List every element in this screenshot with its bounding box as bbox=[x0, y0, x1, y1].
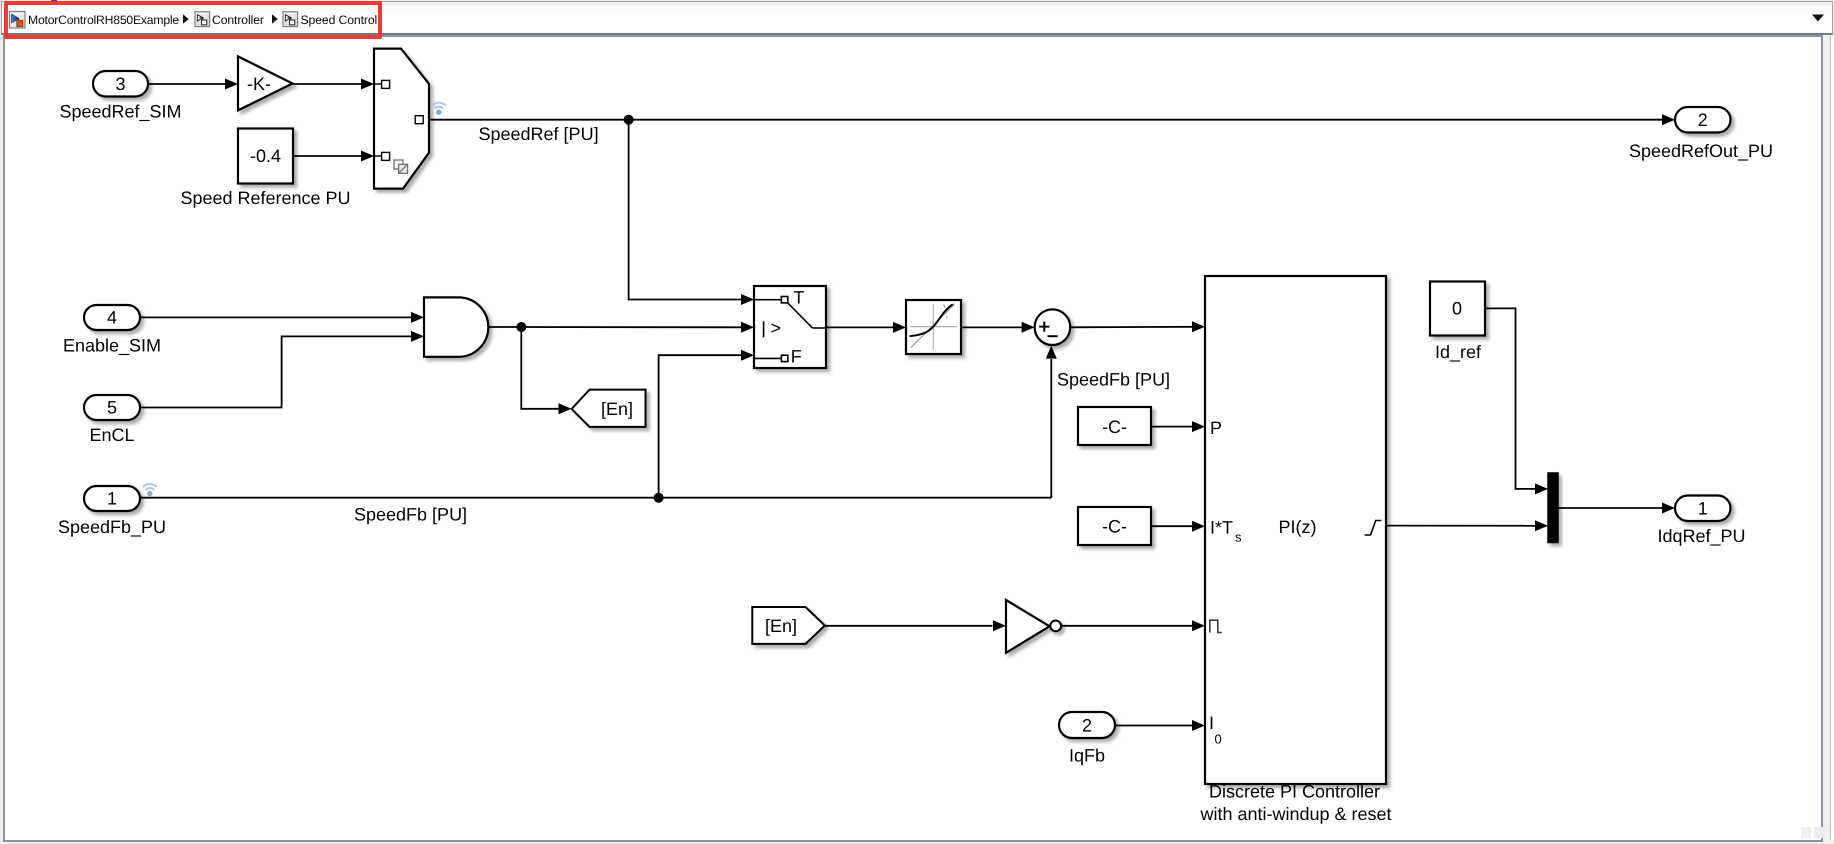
toolbar dropdown arrow bbox=[1812, 15, 1824, 22]
arrowhead into PI I0 input bbox=[1192, 720, 1205, 731]
svg-text:0: 0 bbox=[1452, 299, 1462, 319]
variant badge (overlapping squares) bbox=[394, 160, 408, 173]
outport 1 bbox=[1675, 496, 1731, 522]
svg-text:-C-: -C- bbox=[1102, 417, 1127, 437]
NOT gate bubble bbox=[1050, 621, 1061, 632]
svg-text:SpeedFb [PU]: SpeedFb [PU] bbox=[354, 505, 467, 525]
right scrollbar strip bbox=[1823, 35, 1831, 840]
constant -0.4 (Speed Reference PU) bbox=[238, 129, 293, 184]
switch internals bbox=[755, 297, 825, 362]
wire Constant -C- I*Ts to PI controller bbox=[1151, 525, 1192, 527]
wire branch SpeedFb up to Switch F input bbox=[659, 355, 741, 498]
svg-text:[En]: [En] bbox=[601, 399, 633, 419]
svg-text:SpeedFb [PU]: SpeedFb [PU] bbox=[1057, 370, 1170, 390]
variant source port squares bbox=[374, 80, 423, 160]
arrowhead into PI reset input bbox=[1192, 620, 1205, 631]
svg-text:>: > bbox=[771, 318, 782, 338]
svg-text:I: I bbox=[1209, 713, 1214, 733]
wire Inport2 IqFb to PI I0 input bbox=[1115, 725, 1192, 727]
NOT gate bbox=[1006, 600, 1050, 653]
saturation block icon internals bbox=[910, 304, 958, 351]
PI block reset pulse glyph bbox=[1210, 620, 1222, 632]
sum signs bbox=[1039, 322, 1058, 337]
junction node on SpeedRef line bbox=[624, 115, 634, 125]
breadcrumb subsystem icon 2 bbox=[195, 12, 210, 27]
wire SpeedRef [PU] : VariantSource out to Outport2 bbox=[423, 119, 429, 121]
svg-text:I*T: I*T bbox=[1210, 518, 1233, 538]
wire SpeedFb [PU] : Inport1 to sum bbox=[140, 497, 1051, 499]
scrollbar white edge bbox=[1831, 35, 1834, 840]
svg-text:1: 1 bbox=[1698, 499, 1708, 519]
wire Gain to VariantSource in1 bbox=[293, 83, 363, 85]
wire Saturation out to Sum bbox=[961, 326, 1022, 328]
arrowhead into Gain bbox=[225, 79, 238, 90]
scrollbar inner line bbox=[1830, 35, 1832, 840]
breadcrumb toolbar background bbox=[1, 1, 1833, 35]
svg-text:F: F bbox=[791, 347, 802, 367]
breadcrumb model icon 1 bbox=[10, 12, 26, 29]
svg-text:5: 5 bbox=[107, 398, 117, 418]
inport 5 bbox=[84, 395, 140, 420]
svg-text:SpeedFb_PU: SpeedFb_PU bbox=[58, 517, 166, 537]
wire Switch out to Saturation bbox=[826, 326, 893, 328]
arrowhead into Switch F bbox=[741, 350, 754, 361]
wire PI output to Mux bbox=[1386, 525, 1535, 527]
svg-text:P: P bbox=[1210, 418, 1222, 438]
wire AND output to Switch control bbox=[488, 326, 741, 328]
breadcrumb subsystem icon 3 bbox=[283, 12, 298, 27]
svg-text:with anti-windup & reset: with anti-windup & reset bbox=[1199, 804, 1391, 824]
svg-text:Id_ref: Id_ref bbox=[1435, 342, 1482, 362]
arrowhead into Switch control bbox=[741, 322, 754, 333]
red annotation rectangle around breadcrumb bbox=[4, 1, 382, 39]
arrowhead into AND in2 bbox=[411, 331, 424, 342]
inport 1 bbox=[84, 486, 140, 511]
arrowhead into Saturation bbox=[893, 322, 906, 333]
svg-text:SpeedRef [PU]: SpeedRef [PU] bbox=[479, 124, 599, 144]
wire Inport5 to AND in2 bbox=[140, 336, 411, 407]
AND logical operator block bbox=[424, 297, 488, 356]
breadcrumb separator 2 bbox=[272, 14, 278, 23]
constant -C- (I*Ts gain) bbox=[1078, 507, 1151, 545]
svg-text:0: 0 bbox=[1215, 732, 1222, 747]
svg-text:[En]: [En] bbox=[765, 616, 797, 636]
arrowhead into AND in1 bbox=[411, 312, 424, 323]
wire NOT gate to PI reset input bbox=[1061, 625, 1192, 627]
arrowhead into Outport2 bbox=[1662, 114, 1675, 125]
svg-text:IqFb: IqFb bbox=[1069, 746, 1105, 766]
arrowhead into VariantSource in2 bbox=[361, 151, 374, 162]
arrowhead into Sum bottom bbox=[1046, 346, 1057, 359]
svg-text:3: 3 bbox=[115, 74, 125, 94]
faint watermark marks bottom right bbox=[1801, 827, 1811, 838]
gain -K- bbox=[238, 56, 293, 110]
arrowhead into PI error input bbox=[1192, 321, 1205, 332]
wire branch down to Switch T input bbox=[629, 120, 741, 300]
breadcrumb separator 1 bbox=[183, 14, 189, 23]
saturation block bbox=[906, 300, 961, 354]
top window accent tab bbox=[51, 0, 57, 2]
inport 3 bbox=[93, 71, 148, 97]
svg-text:PI(z): PI(z) bbox=[1279, 517, 1317, 537]
svg-text:Speed Reference PU: Speed Reference PU bbox=[180, 188, 350, 208]
junction node on AND output bbox=[516, 322, 526, 332]
svg-text:-0.4: -0.4 bbox=[250, 146, 281, 166]
wire Mux to Outport1 bbox=[1558, 507, 1662, 509]
constant -C- (P gain) bbox=[1078, 407, 1151, 445]
wire Constant -0.4 to VariantSource in2 bbox=[293, 155, 362, 157]
svg-text:SpeedRefOut_PU: SpeedRefOut_PU bbox=[1629, 141, 1773, 161]
sum block bbox=[1035, 309, 1071, 345]
wireless logging badge on Inport1 output bbox=[143, 484, 157, 496]
svg-text:SpeedRef_SIM: SpeedRef_SIM bbox=[59, 102, 181, 122]
wire Sum out to PI controller bbox=[1070, 326, 1192, 329]
svg-text:-K-: -K- bbox=[247, 74, 271, 94]
arrowhead into PI I*Ts input bbox=[1192, 521, 1205, 532]
wire Inport4 to AND in1 bbox=[140, 316, 411, 318]
svg-text:EnCL: EnCL bbox=[89, 425, 134, 445]
discrete PI controller block bbox=[1205, 276, 1386, 784]
wire Inport3 to Gain bbox=[148, 83, 226, 85]
svg-text:1: 1 bbox=[107, 489, 117, 509]
arrowhead into Mux lower bbox=[1535, 520, 1548, 531]
arrowhead into PI P input bbox=[1192, 421, 1205, 432]
arrowhead into NOT gate bbox=[993, 620, 1006, 631]
svg-text:-C-: -C- bbox=[1102, 516, 1127, 536]
wire From [En] to NOT gate bbox=[825, 625, 993, 627]
arrowhead into VariantSource in1 bbox=[361, 79, 374, 90]
goto tag [En] bbox=[572, 390, 646, 427]
arrowhead into Goto [En] bbox=[559, 403, 572, 414]
wire Constant -C- P to PI controller bbox=[1151, 426, 1192, 428]
outport 2 bbox=[1675, 107, 1731, 133]
arrowhead into Switch T bbox=[741, 294, 754, 305]
wire branch AND output down to Goto [En] bbox=[521, 327, 558, 409]
PI block saturation glyph bbox=[1365, 521, 1382, 536]
svg-text:s: s bbox=[1235, 530, 1242, 545]
constant 0 (Id_ref) bbox=[1430, 282, 1485, 336]
svg-text:Enable_SIM: Enable_SIM bbox=[63, 336, 161, 356]
arrowhead into Outport1 bbox=[1662, 503, 1675, 514]
wire Constant 0 to Mux bbox=[1485, 308, 1535, 489]
svg-text:IdqRef_PU: IdqRef_PU bbox=[1657, 526, 1745, 546]
svg-text:Discrete PI Controller: Discrete PI Controller bbox=[1209, 782, 1380, 802]
svg-text:2: 2 bbox=[1698, 110, 1708, 130]
junction node on SpeedFb line bbox=[654, 493, 664, 503]
svg-text:2: 2 bbox=[1082, 716, 1092, 736]
arrowhead into Mux upper bbox=[1535, 483, 1548, 494]
arrowhead into Sum left bbox=[1022, 322, 1035, 333]
switch block bbox=[754, 286, 826, 368]
inport 2 bbox=[1059, 712, 1115, 738]
wireless logging badge on VariantSource output bbox=[432, 103, 446, 115]
svg-text:T: T bbox=[793, 287, 804, 307]
inport 4 bbox=[84, 305, 140, 330]
from tag [En] bbox=[752, 607, 825, 644]
mux block bbox=[1548, 473, 1558, 543]
variant source block bbox=[374, 49, 429, 189]
svg-text:4: 4 bbox=[107, 308, 117, 328]
